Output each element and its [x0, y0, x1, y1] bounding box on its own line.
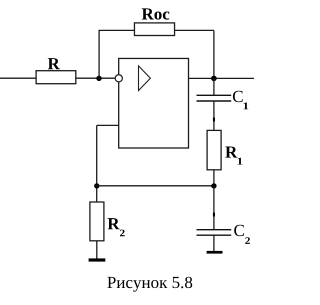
- resistor Roc: [134, 23, 174, 36]
- resistor R2: [90, 202, 104, 241]
- resistor R: [36, 71, 76, 84]
- label C2 subscript 2: [245, 237, 250, 244]
- node C output junction dot: [211, 76, 217, 82]
- label C1 letter: [233, 91, 243, 102]
- wire: non-inverting input: [97, 124, 119, 126]
- capacitor C2 plates: [197, 230, 232, 236]
- inverting input bubble: [115, 75, 122, 82]
- wire: C2 to ground: [213, 235, 215, 251]
- wire: R2 to ground: [96, 241, 98, 259]
- caption Рисунок 5.8: [107, 277, 192, 292]
- ground symbol left: [89, 258, 106, 261]
- label R2 letter: [108, 218, 120, 229]
- wire: input from left edge to R: [0, 77, 36, 79]
- wire: left vertical down to node B: [96, 125, 98, 202]
- ground symbol right: [207, 251, 223, 254]
- wire: node A up to feedback branch: [98, 30, 100, 78]
- node A junction dot: [96, 76, 101, 81]
- wire: node D down to C2: [213, 186, 215, 230]
- op-amp U1 body: [119, 58, 189, 148]
- joint tick on wire above R1: [213, 118, 215, 122]
- node D junction dot: [211, 183, 216, 188]
- wire: R1 down to node D: [213, 170, 215, 186]
- label R2 subscript 2: [120, 230, 125, 237]
- wire: right vertical from feedback down to output node: [213, 30, 215, 78]
- capacitor C1 plates: [197, 95, 232, 101]
- wire: feedback horizontal right segment: [175, 29, 214, 31]
- wire: C1 to R1: [213, 101, 215, 130]
- wire: R to node A and inverting input: [76, 77, 116, 79]
- label R: [48, 58, 60, 69]
- label R1 subscript 1: [238, 158, 243, 165]
- node B junction dot: [94, 183, 99, 188]
- label Roc: [142, 8, 170, 19]
- wire: output to right edge: [189, 77, 255, 79]
- resistor R1: [207, 130, 221, 169]
- joint tick on wire above C2: [213, 213, 215, 217]
- label C2 letter: [234, 225, 244, 236]
- op-amp triangle symbol: [139, 66, 151, 91]
- wire: node B to node D horizontal: [97, 185, 214, 187]
- wire: output node down to C1: [213, 78, 215, 95]
- wire: feedback horizontal left segment: [99, 29, 135, 31]
- label C1 subscript 1: [244, 103, 249, 110]
- label R1 letter: [225, 146, 237, 157]
